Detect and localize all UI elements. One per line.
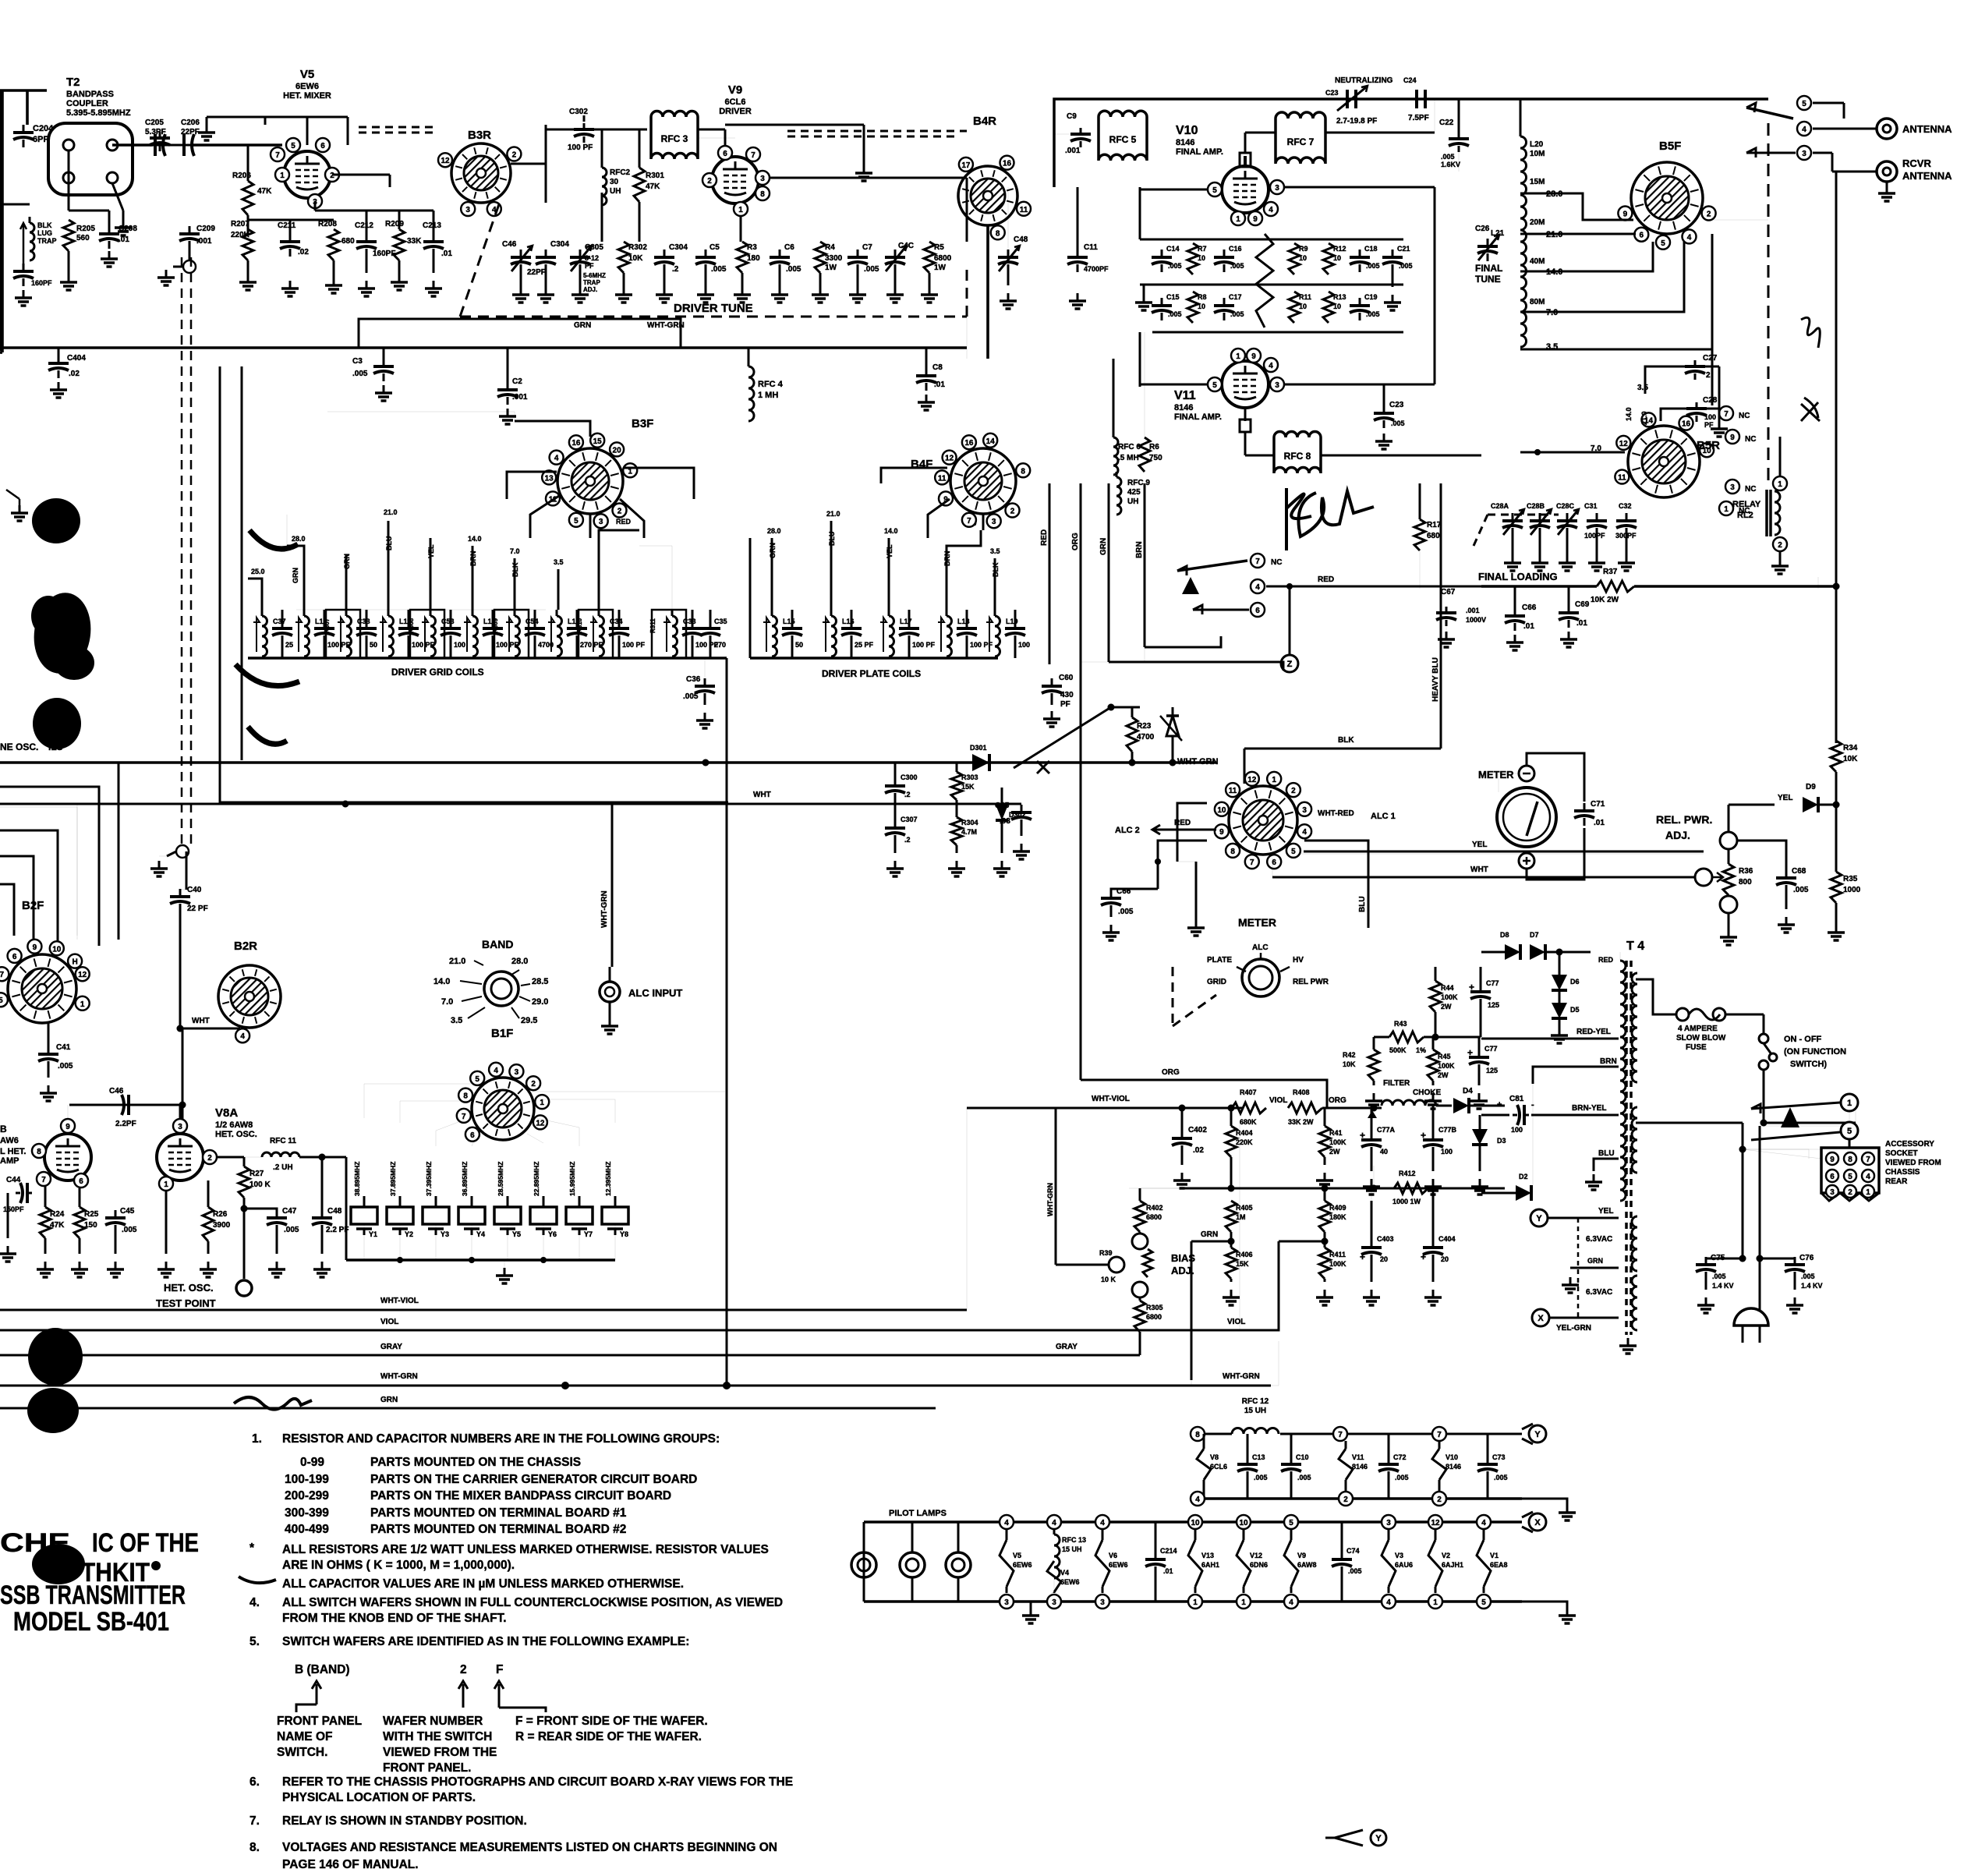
capacitor C404: [48, 348, 86, 378]
svg-text:C32: C32: [1619, 502, 1632, 510]
ground: [1697, 1272, 1714, 1313]
wire: [698, 129, 735, 156]
capacitor C67: [1436, 588, 1486, 626]
svg-text:10 K: 10 K: [1101, 1276, 1116, 1283]
wire: [1129, 1188, 1182, 1201]
svg-text:SSB TRANSMITTER: SSB TRANSMITTER: [0, 1580, 186, 1610]
svg-text:220K: 220K: [1236, 1138, 1253, 1146]
capacitor C5: [695, 243, 727, 274]
svg-text:2: 2: [1437, 1495, 1442, 1504]
svg-text:.005: .005: [1395, 1474, 1409, 1481]
label 21.0v: [1640, 411, 1648, 425]
inductor RFC4: [748, 348, 784, 421]
svg-text:R44: R44: [1441, 984, 1454, 992]
pilot lamp 2: [900, 1522, 925, 1602]
svg-text:1: 1: [1433, 1598, 1438, 1607]
svg-text:Y: Y: [1536, 1214, 1542, 1223]
svg-text:7.5PF: 7.5PF: [1408, 114, 1429, 122]
svg-text:6: 6: [79, 1177, 83, 1186]
svg-text:10: 10: [1299, 254, 1307, 262]
svg-text:R208: R208: [318, 220, 337, 228]
pin 4pp: [1284, 1595, 1298, 1609]
svg-text:D8: D8: [1500, 931, 1509, 939]
coil cell: [253, 610, 293, 658]
svg-text:R303: R303: [961, 773, 978, 781]
note 5: [249, 1635, 689, 1648]
ink blob: [27, 1388, 79, 1433]
svg-text:2W: 2W: [1441, 1003, 1452, 1011]
tap: [427, 538, 435, 610]
svg-text:1: 1: [80, 1000, 85, 1009]
svg-text:1: 1: [280, 172, 285, 180]
svg-text:300-399: 300-399: [285, 1506, 329, 1520]
tap: [554, 558, 564, 610]
wire: [1760, 1070, 1768, 1127]
svg-text:C48: C48: [1014, 235, 1028, 244]
svg-text:3: 3: [1730, 483, 1735, 492]
ground: [150, 856, 168, 876]
svg-text:V4: V4: [1060, 1569, 1069, 1577]
resistor R27: [239, 1157, 271, 1198]
coil cell: [986, 610, 1030, 658]
svg-text:C11: C11: [1084, 243, 1098, 252]
ac plug: [1734, 1308, 1768, 1343]
svg-text:C48: C48: [327, 1207, 342, 1216]
svg-text:NC: NC: [1271, 558, 1282, 567]
resistor R408: [1288, 1088, 1322, 1126]
svg-text:100: 100: [1704, 413, 1716, 421]
svg-text:1W: 1W: [934, 264, 947, 272]
ground: [1619, 1333, 1637, 1354]
svg-text:R7: R7: [1198, 245, 1207, 253]
capacitor C402: [1172, 1105, 1207, 1156]
capacitor C44b: [3, 1176, 32, 1213]
pin 7: [37, 1172, 51, 1186]
pin 12p: [1428, 1515, 1442, 1529]
pin 4: [1264, 202, 1278, 216]
svg-text:7: 7: [1255, 557, 1260, 566]
svg-text:9: 9: [65, 1123, 70, 1131]
svg-text:BLK: BLK: [992, 562, 1000, 577]
svg-text:R8: R8: [1198, 293, 1207, 301]
svg-text:14.0: 14.0: [468, 535, 482, 543]
svg-text:15 UH: 15 UH: [1062, 1545, 1082, 1553]
note 2: [249, 1542, 769, 1572]
svg-text:RFC 8: RFC 8: [1284, 451, 1311, 462]
svg-text:100 PF: 100 PF: [568, 143, 593, 152]
svg-text:3: 3: [1100, 1598, 1105, 1607]
svg-text:16: 16: [1003, 160, 1012, 168]
pin 5: [1208, 182, 1222, 196]
svg-text:8146: 8146: [1176, 138, 1194, 147]
capacitor C11: [1067, 187, 1109, 273]
coil cell: [880, 610, 936, 658]
capacitor C205: [150, 132, 170, 151]
ground: [1522, 1499, 1576, 1520]
label 29.0b: [519, 996, 548, 1007]
svg-text:22.895MHZ: 22.895MHZ: [533, 1162, 540, 1196]
svg-text:5: 5: [1212, 186, 1217, 195]
diode D9: [1803, 783, 1818, 812]
dashed tap line: [1577, 1218, 1580, 1318]
svg-text:D302: D302: [1009, 811, 1026, 819]
svg-text:50: 50: [370, 641, 377, 649]
wire: [1322, 1105, 1382, 1112]
label V11: [1174, 389, 1222, 422]
svg-text:5.: 5.: [249, 1635, 260, 1648]
capacitor C18: [1350, 245, 1380, 272]
label 63VAC2: [1586, 1288, 1612, 1297]
ground: [1506, 635, 1523, 650]
svg-text:7: 7: [967, 517, 971, 526]
tube V5: [284, 151, 331, 198]
note groups: [285, 1456, 697, 1536]
svg-text:METER: METER: [1238, 916, 1276, 929]
svg-text:VIOL: VIOL: [1227, 1318, 1245, 1326]
svg-text:.005: .005: [683, 692, 699, 701]
resistor R406: [1226, 1248, 1253, 1279]
wire: [1729, 802, 1840, 834]
wire: [1289, 586, 1291, 655]
svg-text:20M: 20M: [1530, 218, 1545, 227]
capacitor C71: [1574, 800, 1605, 827]
svg-text:BAND: BAND: [482, 938, 513, 950]
svg-text:C304: C304: [550, 240, 569, 249]
svg-text:BLK: BLK: [1338, 736, 1354, 745]
svg-text:R311: R311: [649, 618, 656, 633]
svg-text:C28: C28: [1703, 396, 1718, 405]
svg-text:3: 3: [1275, 381, 1279, 390]
ground: [40, 1062, 57, 1101]
wire: [725, 125, 864, 153]
svg-text:8: 8: [996, 229, 1000, 238]
crystal Y5: [494, 1162, 521, 1238]
svg-text:6EW6: 6EW6: [1060, 1578, 1080, 1586]
wire: [1636, 979, 1676, 1014]
svg-text:VIEWED FROM THE: VIEWED FROM THE: [383, 1746, 497, 1759]
rotary switch B2R: [218, 965, 281, 1042]
pot wiper: [1676, 869, 1723, 886]
svg-text:2: 2: [1010, 508, 1015, 516]
svg-text:D301: D301: [970, 744, 987, 752]
svg-text:6: 6: [723, 150, 727, 158]
svg-text:4: 4: [1269, 206, 1273, 214]
wire: [1712, 219, 1768, 221]
rotary switch B1F: [457, 1063, 549, 1142]
tap: [287, 535, 306, 610]
wire box: [327, 412, 515, 421]
note 8: [249, 1841, 777, 1871]
svg-text:R205: R205: [76, 225, 95, 233]
capacitor C205b: [153, 137, 192, 153]
svg-text:3900: 3900: [213, 1221, 231, 1230]
svg-text:4700: 4700: [1137, 733, 1155, 742]
svg-text:180K: 180K: [1329, 1213, 1346, 1221]
svg-text:C4C: C4C: [898, 242, 914, 250]
svg-text:HET. OSC.: HET. OSC.: [164, 1282, 214, 1294]
svg-text:BRN: BRN: [1600, 1057, 1617, 1066]
svg-text:2: 2: [1707, 211, 1711, 219]
svg-text:GRN: GRN: [1201, 1230, 1218, 1239]
label V5: [283, 68, 331, 101]
svg-text:11: 11: [1229, 787, 1237, 795]
resistor R13: [1323, 292, 1346, 323]
svg-text:ARE IN OHMS ( K = 1000, M = 1,: ARE IN OHMS ( K = 1000, M = 1,000,000).: [282, 1559, 515, 1572]
svg-text:R411: R411: [1329, 1251, 1346, 1258]
svg-text:9: 9: [1251, 352, 1256, 361]
capacitor C15: [1152, 293, 1182, 320]
svg-text:12: 12: [1619, 440, 1629, 448]
vertical HV wire: [1835, 586, 1838, 743]
wire: [1843, 103, 1845, 119]
svg-text:.005: .005: [284, 1226, 299, 1234]
ground: [948, 845, 965, 876]
capacitor C2: [497, 348, 528, 405]
wire: [68, 1105, 180, 1118]
svg-text:CHOKE: CHOKE: [1413, 1088, 1441, 1097]
svg-text:1: 1: [164, 1180, 168, 1189]
ground: [1562, 1268, 1583, 1293]
zener D303: [1160, 707, 1182, 763]
svg-text:GRN: GRN: [1587, 1257, 1603, 1265]
label HV: [1280, 956, 1304, 972]
diagonal wire: [1014, 707, 1140, 768]
svg-text:RFC 7: RFC 7: [1287, 136, 1315, 147]
svg-text:.005: .005: [1399, 262, 1413, 270]
svg-text:6: 6: [1640, 232, 1644, 240]
svg-text:DRIVER PLATE COILS: DRIVER PLATE COILS: [822, 668, 921, 679]
svg-text:560: 560: [76, 234, 90, 242]
capacitor C66: [1101, 887, 1158, 916]
pin 5p: [1284, 1515, 1298, 1529]
svg-text:GRN: GRN: [292, 568, 299, 583]
crystal Y2: [387, 1162, 413, 1238]
svg-text:C33: C33: [683, 618, 696, 625]
label 29.5b: [511, 1007, 537, 1025]
svg-text:C15: C15: [1166, 293, 1180, 301]
heater V1: [1477, 1529, 1508, 1593]
svg-text:B5R: B5R: [1697, 439, 1720, 452]
resistor R6: [1139, 332, 1162, 472]
capacitor C41: [38, 1023, 73, 1071]
terminal X: [1532, 1309, 1619, 1333]
svg-text:C14: C14: [1166, 245, 1180, 253]
svg-text:HEAVY BLU: HEAVY BLU: [1431, 657, 1440, 702]
svg-text:HV: HV: [1293, 956, 1304, 965]
svg-text:150PF: 150PF: [3, 1205, 24, 1213]
svg-text:ON - OFF: ON - OFF: [1784, 1035, 1822, 1044]
wire: [186, 851, 188, 890]
label ALC2 RED: [1115, 819, 1216, 835]
inductor RFC6: [1113, 359, 1141, 475]
svg-text:WHT-VIOL: WHT-VIOL: [380, 1297, 419, 1305]
junction: [702, 759, 709, 766]
capacitor C66a: [1505, 586, 1537, 631]
heater V9p: [1284, 1529, 1317, 1593]
svg-text:PARTS ON THE CARRIER GENERATOR: PARTS ON THE CARRIER GENERATOR CIRCUIT B…: [370, 1473, 697, 1486]
svg-text:4: 4: [1255, 583, 1260, 592]
svg-text:.005: .005: [1297, 1474, 1311, 1481]
svg-text:BLU: BLU: [385, 536, 393, 551]
lamp bus bottom: [864, 1600, 1522, 1603]
svg-text:REFER TO THE CHASSIS PHOTOGRAP: REFER TO THE CHASSIS PHOTOGRAPHS AND CIR…: [282, 1775, 793, 1789]
scribble: [1801, 398, 1820, 421]
label ANTENNA: [1902, 123, 1952, 135]
wire: [1729, 841, 1786, 870]
svg-text:YEL: YEL: [427, 544, 435, 558]
svg-text:R207: R207: [231, 220, 249, 228]
pin 2: [203, 1150, 217, 1164]
label trap adj: [583, 272, 606, 293]
ground: [571, 265, 589, 303]
svg-text:6: 6: [1830, 1173, 1835, 1181]
svg-text:100 PF: 100 PF: [912, 641, 936, 649]
svg-text:C76: C76: [1799, 1254, 1814, 1262]
wire: [0, 90, 30, 351]
wire: [1835, 772, 1838, 872]
label c23v: [1336, 117, 1377, 126]
wire: [1779, 437, 1782, 468]
wire fan crystal: [527, 1134, 543, 1143]
svg-text:.005: .005: [1793, 886, 1809, 894]
svg-text:C208: C208: [119, 225, 137, 233]
svg-text:V5: V5: [300, 68, 314, 81]
svg-text:R23: R23: [1137, 722, 1152, 731]
svg-text:ALC: ALC: [1252, 943, 1269, 952]
svg-text:.005: .005: [1366, 262, 1380, 270]
tap RED: [599, 518, 639, 610]
svg-text:SOCKET: SOCKET: [1885, 1149, 1918, 1158]
svg-text:DRIVER: DRIVER: [719, 107, 752, 116]
diode D2: [1481, 1173, 1533, 1201]
rfc RFC3: [651, 111, 698, 159]
svg-text:.005: .005: [1168, 262, 1182, 270]
svg-text:SLOW BLOW: SLOW BLOW: [1676, 1034, 1726, 1042]
capacitor C74: [1332, 1522, 1362, 1602]
svg-text:.01: .01: [1163, 1567, 1173, 1575]
svg-text:425: 425: [1127, 488, 1141, 497]
svg-text:BANDPASS: BANDPASS: [66, 90, 114, 99]
terminal: [167, 845, 189, 858]
svg-text:5: 5: [1847, 1127, 1852, 1136]
svg-text:2: 2: [460, 1663, 467, 1676]
svg-text:1000V: 1000V: [1466, 616, 1486, 624]
svg-text:7: 7: [41, 1176, 46, 1184]
coil cell: [380, 610, 435, 658]
wire: [1813, 103, 1844, 119]
svg-text:C53: C53: [441, 618, 455, 625]
ground: [512, 265, 529, 303]
capacitor C209: [179, 225, 215, 249]
example diagram: [295, 1663, 546, 1712]
svg-text:16: 16: [964, 439, 974, 448]
wire: [602, 193, 639, 242]
svg-text:10M: 10M: [1530, 150, 1545, 158]
svg-text:1: 1: [1193, 1598, 1198, 1607]
wire wht: [1272, 858, 1676, 877]
svg-text:C44: C44: [6, 1176, 21, 1184]
svg-text:F = FRONT SIDE OF THE WAFER.: F = FRONT SIDE OF THE WAFER.: [515, 1715, 708, 1728]
label 7.0: [1591, 444, 1601, 453]
rotary switch ALC: [1215, 772, 1311, 869]
svg-text:680: 680: [1427, 532, 1440, 540]
svg-text:3.5: 3.5: [554, 558, 564, 566]
diode D6: [1552, 952, 1580, 990]
svg-text:160PF: 160PF: [373, 250, 395, 258]
pin 4: [1251, 579, 1265, 593]
tap: [990, 547, 1000, 610]
svg-text:WHT: WHT: [753, 791, 771, 799]
wire: [218, 1156, 244, 1159]
svg-text:GRN: GRN: [574, 321, 591, 330]
svg-text:R406: R406: [1236, 1251, 1253, 1258]
capacitor C302: [568, 108, 594, 152]
pin 1p2: [1237, 1595, 1251, 1609]
svg-text:C47: C47: [282, 1207, 297, 1216]
svg-text:15: 15: [593, 437, 603, 446]
ground: [1771, 551, 1789, 574]
svg-text:50: 50: [795, 641, 803, 649]
wire: [1140, 1188, 1182, 1201]
rotary switch B3R: [438, 143, 521, 216]
heater V4: [1047, 1561, 1080, 1593]
wire left edge: [0, 90, 2, 352]
pin 1pp: [1428, 1595, 1442, 1609]
svg-text:47K: 47K: [257, 187, 272, 196]
coil cell boxed: [576, 610, 646, 658]
svg-text:FRONT PANEL.: FRONT PANEL.: [383, 1761, 471, 1775]
svg-text:6: 6: [470, 1131, 475, 1140]
capacitor C65: [995, 802, 1032, 827]
svg-text:2: 2: [617, 508, 622, 516]
svg-text:8: 8: [1230, 848, 1235, 856]
label 14.0v: [1625, 407, 1633, 421]
capacitor C16: [1214, 245, 1244, 272]
svg-text:C26: C26: [1475, 225, 1490, 233]
pin 1: [275, 168, 289, 182]
svg-text:C212: C212: [355, 221, 373, 230]
pin 4p: [1000, 1515, 1014, 1529]
capacitor C76: [1757, 1254, 1823, 1290]
resistor R3: [737, 242, 760, 273]
svg-text:6EW6: 6EW6: [295, 82, 319, 91]
label socket: [1885, 1140, 1941, 1186]
scribble: [1801, 317, 1820, 348]
svg-text:14.0: 14.0: [1625, 407, 1633, 421]
ink blob: [33, 698, 81, 749]
svg-text:C72: C72: [1393, 1453, 1407, 1461]
resistor R402: [1134, 1188, 1163, 1232]
capacitor C81: [1497, 1095, 1534, 1134]
ground: [615, 273, 632, 303]
svg-text:Y2: Y2: [405, 1230, 413, 1238]
svg-text:.005: .005: [1230, 262, 1244, 270]
pin 1p: [1188, 1595, 1202, 1609]
svg-text:NAME OF: NAME OF: [277, 1730, 332, 1743]
svg-text:.005: .005: [58, 1062, 73, 1071]
pin 2: [1773, 537, 1787, 551]
scribble R: [1286, 488, 1374, 550]
wire dashed to B3R: [359, 127, 437, 133]
label L20: [1530, 140, 1545, 158]
resistor R41: [1319, 1108, 1346, 1157]
svg-text:4: 4: [1100, 1519, 1105, 1527]
svg-text:R3: R3: [747, 243, 757, 252]
label METER2: [1238, 916, 1276, 929]
capacitor C24: [1403, 76, 1429, 122]
svg-text:C54: C54: [525, 618, 539, 625]
svg-text:3: 3: [1302, 806, 1307, 815]
